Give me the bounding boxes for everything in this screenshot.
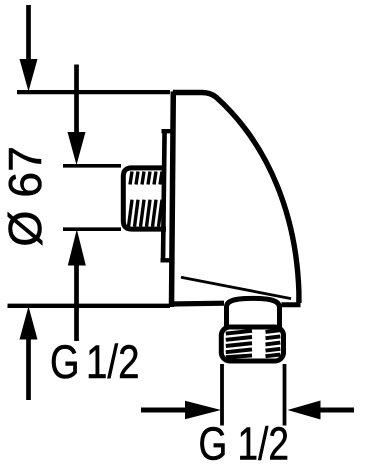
svg-text:1/2: 1/2 [86,336,140,389]
svg-text:G 1/2: G 1/2 [199,418,290,469]
svg-text:Ø 67: Ø 67 [0,146,51,247]
svg-text:G: G [50,336,80,389]
